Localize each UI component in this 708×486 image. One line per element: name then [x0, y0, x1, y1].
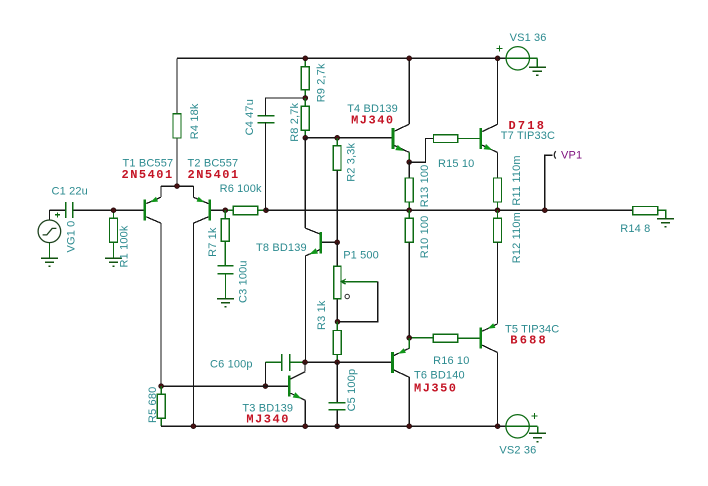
- wire T4 collector up: [408, 58, 410, 124]
- svg-text:R7 1k: R7 1k: [207, 227, 219, 257]
- svg-text:T7 TIP33C: T7 TIP33C: [501, 130, 555, 142]
- node diff pair emitters: [175, 184, 180, 189]
- voltage generator VG1: [38, 210, 61, 258]
- ground VS2: [529, 433, 546, 441]
- node P1 bottom: [335, 319, 340, 324]
- transistor T8: [305, 228, 337, 256]
- capacitor C1: [66, 202, 73, 218]
- svg-text:R9 2,7k: R9 2,7k: [316, 63, 328, 102]
- node T6 collector bottom: [407, 424, 412, 429]
- svg-text:C3 100u: C3 100u: [237, 260, 249, 303]
- node R8 bottom: [303, 135, 308, 140]
- node R13 bottom mid rail: [407, 208, 412, 213]
- svg-text:P1 500: P1 500: [343, 250, 379, 262]
- node R9 top: [303, 56, 308, 61]
- svg-text:R12 110m: R12 110m: [511, 212, 523, 263]
- node C6 right / T3 collector: [303, 360, 308, 365]
- voltage probe VP1: [545, 151, 556, 210]
- wire R15 corner link: [409, 139, 433, 163]
- resistor R10: [405, 210, 413, 242]
- resistor R3: [333, 322, 341, 363]
- wire y=362 row: [305, 361, 391, 363]
- wire R12 bottom down to T5: [497, 242, 499, 323]
- svg-text:C5 100p: C5 100p: [346, 369, 358, 412]
- wire T7 emitter down to R11: [497, 153, 499, 179]
- node R9/R8 junction: [303, 96, 308, 101]
- node R6 right: [264, 208, 269, 213]
- wire R8 node to T8 collector: [304, 138, 306, 228]
- svg-text:R13 100: R13 100: [419, 165, 431, 208]
- voltage source VS1: [497, 46, 538, 71]
- wire T6 emitter stub: [408, 338, 410, 349]
- wire R10 bottom down: [408, 242, 410, 337]
- wire T2 base to R6: [211, 209, 225, 211]
- node R2 top: [335, 135, 340, 140]
- resistor R5: [157, 386, 165, 426]
- capacitor C5: [329, 362, 346, 426]
- wire bottom rail: [161, 425, 506, 427]
- svg-text:R3 1k: R3 1k: [316, 300, 328, 330]
- wire mid rail: [266, 209, 633, 211]
- node T1 collector / R5: [159, 384, 164, 389]
- node R3/C5 junction: [335, 360, 340, 365]
- wire T8 emitter down: [304, 256, 306, 362]
- potentiometer P1: [334, 242, 378, 321]
- wire T4 emitter down: [408, 152, 410, 162]
- wire top rail: [177, 57, 506, 59]
- svg-text:VS2 36: VS2 36: [499, 445, 536, 457]
- resistor R2: [333, 138, 341, 171]
- svg-text:2N5401: 2N5401: [188, 168, 240, 182]
- svg-text:MJ340: MJ340: [351, 114, 395, 128]
- wire T7 collector up: [497, 58, 499, 124]
- wire emitter tie bar T1/T2: [161, 185, 193, 187]
- svg-text:R1 100k: R1 100k: [119, 225, 131, 267]
- node T7 collector top / VS1: [495, 56, 500, 61]
- ground under C3: [217, 299, 234, 307]
- voltage source VS2: [498, 413, 538, 438]
- resistor R6: [225, 206, 266, 214]
- wire R4 to diff pair emitter node: [176, 138, 178, 186]
- svg-text:B688: B688: [510, 334, 548, 348]
- resistor R15: [434, 135, 480, 143]
- svg-text:C4 47u: C4 47u: [244, 99, 256, 135]
- wire mid rail left (VG1 to C1): [49, 209, 65, 211]
- svg-text:R16 10: R16 10: [433, 355, 469, 367]
- resistor R13: [405, 162, 413, 210]
- node C5 bottom: [335, 424, 340, 429]
- svg-text:R6 100k: R6 100k: [220, 183, 262, 195]
- node C6 drop on T3 base wire: [263, 384, 268, 389]
- node T8 base: [335, 240, 340, 245]
- wire T2 collector down: [192, 223, 194, 426]
- resistor R8: [301, 98, 309, 138]
- wire T1 collector down: [160, 223, 162, 386]
- wire C3 to ground: [224, 274, 226, 299]
- svg-text:T8 BD139: T8 BD139: [256, 242, 307, 254]
- wire T5 collector down: [497, 353, 499, 427]
- ground under R1: [105, 258, 122, 266]
- node T5 collector bottom / VS2: [495, 424, 500, 429]
- wire C4 bottom to mid rail: [265, 123, 267, 211]
- resistor R4: [173, 114, 181, 138]
- resistor R12: [494, 210, 502, 242]
- capacitor C6: [265, 354, 305, 386]
- node R11 bottom mid rail: [495, 208, 500, 213]
- svg-text:R4 18k: R4 18k: [189, 103, 201, 139]
- transistor T2: [193, 186, 211, 223]
- svg-text:VS1 36: VS1 36: [510, 32, 547, 44]
- svg-text:MJ350: MJ350: [414, 382, 458, 396]
- transistor T4: [384, 124, 409, 152]
- node R16 left / R10 / T6 emitter: [407, 335, 412, 340]
- svg-text:R2 3,3k: R2 3,3k: [345, 142, 357, 181]
- ground under VG1: [41, 258, 58, 266]
- wire C1 to T1 base: [73, 209, 144, 211]
- svg-text:R5 680: R5 680: [147, 387, 159, 423]
- svg-text:R8 2,7k: R8 2,7k: [289, 102, 301, 141]
- svg-text:C1 22u: C1 22u: [52, 186, 88, 198]
- ground VS1: [529, 67, 546, 75]
- svg-text:2N5401: 2N5401: [122, 168, 174, 182]
- transistor T1: [144, 186, 161, 223]
- wire C4 top to R9/R8 node: [266, 98, 306, 116]
- resistor R14: [633, 207, 666, 219]
- resistor R11: [494, 178, 502, 210]
- node T2 collector bottom: [191, 424, 196, 429]
- node T3 emitter bottom: [303, 424, 308, 429]
- transistor T3: [288, 362, 305, 426]
- node T4 collector top: [407, 56, 412, 61]
- svg-text:R10 100: R10 100: [419, 216, 431, 259]
- transistor T6: [391, 348, 409, 377]
- resistor R7: [221, 210, 229, 265]
- capacitor C3: [217, 266, 233, 274]
- resistor R1: [110, 210, 118, 258]
- wire R8 node to T4 base: [305, 137, 391, 139]
- svg-text:C6 100p: C6 100p: [210, 359, 253, 371]
- node R6 left: [223, 208, 228, 213]
- svg-text:VG1 0: VG1 0: [66, 221, 78, 253]
- node VP1 on mid rail: [542, 208, 547, 213]
- wire P1 wiper return: [338, 282, 378, 322]
- svg-text:R15 10: R15 10: [438, 158, 474, 170]
- svg-text:VP1: VP1: [561, 150, 582, 162]
- resistor R9: [301, 58, 309, 98]
- wire R2 bottom to T8 base node: [336, 170, 338, 242]
- resistor R16: [409, 334, 480, 342]
- svg-text:T6 BD140: T6 BD140: [414, 370, 465, 382]
- capacitor C4: [257, 116, 274, 123]
- svg-text:R11 110m: R11 110m: [511, 155, 523, 205]
- svg-text:R14 8: R14 8: [620, 223, 650, 235]
- node T4 emitter / R15 / R13: [407, 160, 412, 165]
- ground R14: [657, 219, 674, 227]
- wire T3 base row: [161, 385, 288, 387]
- node R1 top: [111, 208, 116, 213]
- transistor T7: [480, 124, 498, 152]
- wire T6 collector down: [408, 377, 410, 426]
- wire top-left corner to R4: [176, 58, 178, 114]
- svg-text:MJ340: MJ340: [246, 413, 290, 427]
- transistor T5: [480, 323, 498, 352]
